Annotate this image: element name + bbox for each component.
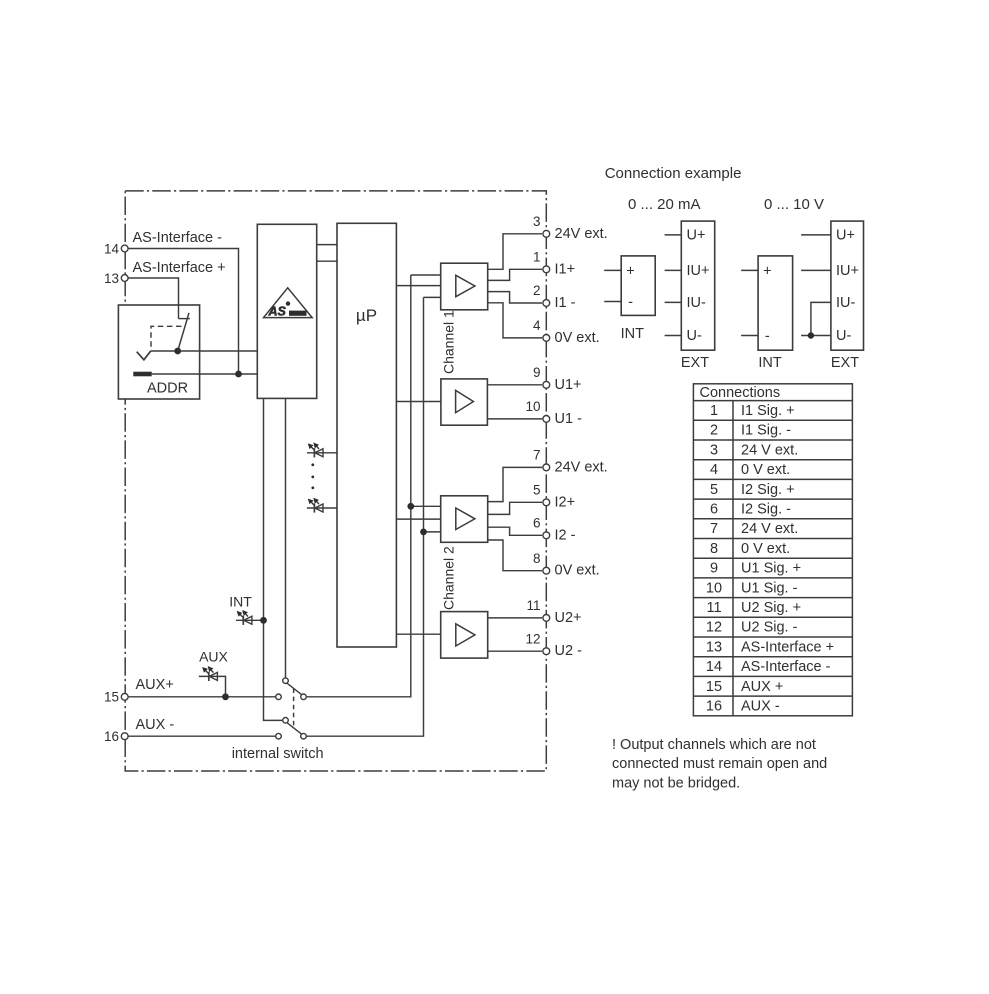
wire terminal 16 AUX- [125,735,276,737]
wire 13 inside ADDR box [178,304,180,319]
svg-text:0V ext.: 0V ext. [555,330,600,346]
svg-text:24V ext.: 24V ext. [555,459,608,475]
wire amp U2 to terminal 11 [488,617,542,619]
svg-text:INT: INT [229,594,252,610]
svg-text:5: 5 [710,482,718,498]
terminal 5 [533,483,575,511]
wire amp I2 to terminal 5 [488,502,542,514]
svg-text:IU-: IU- [687,295,707,311]
wire amp I1 to terminal 1 [488,269,542,280]
svg-text:! Output channels which are no: ! Output channels which are not [612,737,816,753]
wire AS-i to uP upper [317,244,337,246]
amplifier U2 voltage output [441,612,488,659]
svg-text:INT: INT [621,326,645,342]
wire 0V rail to amp I1 [424,296,441,298]
table row pin 10 [706,580,798,596]
table row pin 3 [710,442,798,458]
AS-i logo [264,288,313,319]
ADDR switch lever [178,313,189,351]
terminal 8 [533,551,600,579]
junction EXT2 bridge [808,332,814,338]
svg-text:IU+: IU+ [836,263,859,279]
svg-text:U2+: U2+ [555,610,582,626]
svg-text:5: 5 [533,483,541,498]
svg-text:ADDR: ADDR [147,381,188,397]
svg-text:8: 8 [533,551,541,566]
svg-text:0 ... 20 mA: 0 ... 20 mA [628,196,701,213]
svg-text:-: - [628,295,633,311]
terminal 14 [104,241,128,256]
LED AUX [199,649,229,697]
wire uP to amp U1 [396,401,441,403]
svg-text:AS-Interface +: AS-Interface + [133,260,226,276]
svg-text:AS-Interface +: AS-Interface + [741,639,834,655]
table row pin 4 [710,462,790,478]
svg-text:2: 2 [533,283,541,298]
table row pin 6 [710,502,791,518]
table row pin 9 [710,561,801,577]
wire amp U1 to terminal 10 [487,418,542,420]
internal switch S1 upper [276,678,307,700]
terminal 9 [533,365,582,393]
amplifier I1 channel 1 current output [441,263,488,310]
wire upper switch to 24V rail [307,275,411,697]
wire uP to amp I1 [396,285,440,287]
svg-text:AS-Interface -: AS-Interface - [133,230,223,246]
svg-text:Connection example: Connection example [605,165,742,182]
amplifier U1 voltage output [441,379,488,425]
wire to INT1 plus [604,269,621,271]
svg-text:INT: INT [758,355,782,371]
svg-text:2: 2 [710,423,718,439]
wire amp I2 to terminal 7 [488,467,542,501]
svg-text:24V ext.: 24V ext. [555,226,608,242]
wire to INT1 minus [604,301,621,303]
pin wire EXT1 IU+ [665,269,682,271]
svg-text:7: 7 [710,521,718,537]
wire 24V rail to amp I1 [411,274,441,276]
svg-text:9: 9 [710,561,718,577]
junction 24V rail amp I2 [407,503,414,510]
note text [612,737,827,792]
svg-text:internal switch: internal switch [232,746,324,762]
terminal 11 [526,598,581,626]
wire AS-i internal supply rail to upper switch [285,398,287,677]
svg-text:14: 14 [706,659,722,675]
wire uP to amp I2 [396,518,440,520]
svg-text:may not be bridged.: may not be bridged. [612,776,740,792]
svg-text:15: 15 [104,690,119,705]
svg-text:10: 10 [525,399,540,414]
svg-text:11: 11 [526,598,540,613]
svg-text:U-: U- [687,328,702,344]
table row pin 1 [710,403,795,419]
svg-text:16: 16 [104,729,119,744]
wire terminal 14 to node A [125,249,239,375]
wire amp U2 to terminal 12 [488,650,542,652]
table row pin 12 [706,620,798,636]
svg-text:0V ext.: 0V ext. [555,563,600,579]
junction INT LED on internal rail [260,617,267,624]
svg-text:U1 Sig. +: U1 Sig. + [741,561,801,577]
ADDR actuator arrow [137,351,151,360]
svg-text:3: 3 [710,442,718,458]
svg-text:Connections: Connections [700,385,781,401]
internal switch S1 lower [276,718,307,740]
svg-text:9: 9 [533,365,541,380]
INT source box example 2 [758,256,793,350]
svg-text:EXT: EXT [831,355,859,371]
svg-text:14: 14 [104,241,120,256]
svg-text:10: 10 [706,580,722,596]
wire to INT2 plus [741,269,758,271]
wire amp I1 to terminal 3 [488,234,542,269]
wire to INT2 minus [741,335,758,337]
svg-text:IU+: IU+ [687,263,710,279]
pin wire EXT2 IU+ [801,269,831,271]
wire 0V rail to amp I2 [424,531,441,533]
terminal 13 [104,271,128,286]
svg-text:4: 4 [533,318,541,333]
svg-text:12: 12 [706,620,722,636]
connections table [693,384,852,716]
pin wire EXT1 IU- [665,301,682,303]
wire amp I1 to terminal 2 [488,292,542,303]
junction AUX LED on AUX+ wire [222,693,229,700]
EXT load box example 1 [681,221,714,350]
junction ADDR switch pivot [174,348,181,355]
svg-text:Channel 2: Channel 2 [441,546,457,610]
svg-text:I2 Sig. +: I2 Sig. + [741,482,795,498]
svg-text:AUX -: AUX - [741,699,780,715]
svg-text:connected must remain open and: connected must remain open and [612,756,827,772]
LED D1 status [307,443,337,457]
table row pin 2 [710,423,791,439]
svg-text:U1 -: U1 - [555,411,583,427]
svg-text:AUX: AUX [199,649,228,665]
terminal 15 [104,690,128,705]
svg-text:1: 1 [710,403,718,419]
table row pin 8 [710,541,790,557]
svg-text:AS: AS [268,304,287,318]
table row pin 13 [706,639,834,655]
wire amp I1 to terminal 4 [488,303,542,338]
LED Dn status [307,499,337,513]
wire uP to amp U2 [396,633,440,635]
svg-text:U2 Sig. -: U2 Sig. - [741,620,798,636]
ADDR switch fixed contact [179,318,190,320]
svg-text:15: 15 [706,679,722,695]
svg-text:I1 Sig. +: I1 Sig. + [741,403,795,419]
svg-text:U1 Sig. -: U1 Sig. - [741,580,798,596]
terminal 6 [533,516,576,544]
svg-text:U+: U+ [687,228,706,244]
svg-text:+: + [763,264,771,280]
wire lower switch to 0V rail [307,297,424,736]
ADDR jack bar [133,372,151,377]
svg-text:24 V ext.: 24 V ext. [741,442,798,458]
table row pin 15 [706,679,783,695]
svg-text:0 ... 10 V: 0 ... 10 V [764,196,824,213]
junction 0V rail amp I2 [420,529,427,536]
pin wire EXT2 U- [801,335,831,337]
wire amp I2 to terminal 8 [488,540,542,571]
svg-text:0 V ext.: 0 V ext. [741,541,790,557]
svg-text:6: 6 [533,516,541,531]
svg-text:I1+: I1+ [555,261,576,277]
terminal 7 [533,448,608,476]
terminal 2 [533,283,576,311]
svg-text:I2+: I2+ [555,494,576,510]
svg-text:I1 -: I1 - [555,295,576,311]
table row pin 7 [710,521,798,537]
wire amp I2 to terminal 6 [488,527,542,535]
ADDR block [118,305,199,399]
terminal 3 [533,214,608,242]
svg-text:µP: µP [356,306,377,325]
svg-text:I1 Sig. -: I1 Sig. - [741,423,791,439]
svg-text:24 V ext.: 24 V ext. [741,521,798,537]
svg-text:I2 -: I2 - [555,527,576,543]
amplifier I2 channel 2 current output [441,496,488,543]
terminal 12 [525,631,582,659]
table row pin 5 [710,482,795,498]
svg-text:3: 3 [533,214,541,229]
terminal 4 [533,318,600,346]
svg-text:U2 -: U2 - [555,643,583,659]
wire AS-i to uP lower [317,260,337,262]
junction node A [235,371,242,378]
wire ADDR switch to AS-i interface [150,350,257,352]
wire EXT2 IU- bridge to U- [811,302,831,335]
svg-text:+: + [626,264,634,280]
svg-text:13: 13 [104,271,119,286]
svg-text:IU-: IU- [836,295,856,311]
svg-text:4: 4 [710,462,718,478]
wire AS-i internal supply rail to lower switch [264,398,283,720]
svg-text:AUX -: AUX - [136,717,175,733]
svg-text:U1+: U1+ [555,377,582,393]
table row pin 14 [706,659,831,675]
svg-text:Channel 1: Channel 1 [441,310,457,374]
svg-text:AUX +: AUX + [741,679,783,695]
wire terminal 15 AUX+ [125,696,276,698]
svg-text:11: 11 [706,600,721,616]
svg-text:0 V ext.: 0 V ext. [741,462,790,478]
svg-text:-: - [765,329,770,345]
svg-text:U+: U+ [836,228,855,244]
svg-text:12: 12 [525,631,540,646]
svg-text:U2 Sig. +: U2 Sig. + [741,600,801,616]
microprocessor uP block [337,223,396,647]
wire 24V rail to amp I2 [411,505,441,507]
svg-text:EXT: EXT [681,355,709,371]
pin wire EXT1 U+ [665,234,682,236]
switch mechanical coupling dashed [293,689,295,730]
svg-text:16: 16 [706,699,722,715]
AS-Interface IC block U1 [257,224,316,398]
wire ADDR bar to AS-i interface [152,373,258,375]
wire amp U1 to terminal 9 [487,384,542,386]
svg-text:AS-Interface -: AS-Interface - [741,659,831,675]
svg-text:1: 1 [533,250,541,265]
LED INT [229,594,263,625]
terminal 16 [104,729,128,744]
svg-text:13: 13 [706,639,722,655]
svg-text:8: 8 [710,541,718,557]
enclosure dash-dot border [125,191,546,771]
svg-text:AUX+: AUX+ [136,677,174,693]
svg-text:6: 6 [710,502,718,518]
pin wire EXT1 U- [665,335,682,337]
table row pin 11 [706,600,801,616]
terminal 10 [525,399,582,427]
svg-text:7: 7 [533,448,541,463]
pin wire EXT2 U+ [801,234,831,236]
svg-text:U-: U- [836,328,851,344]
table row pin 16 [706,699,780,715]
INT source box example 1 [621,256,655,316]
ellipsis dots between LEDs [311,463,314,489]
ADDR switch actuator dashed link [151,326,182,347]
wire terminal 13 to ADDR switch [125,278,179,319]
EXT load box example 2 [831,221,864,350]
svg-text:I2 Sig. -: I2 Sig. - [741,502,791,518]
terminal 1 [533,250,575,278]
